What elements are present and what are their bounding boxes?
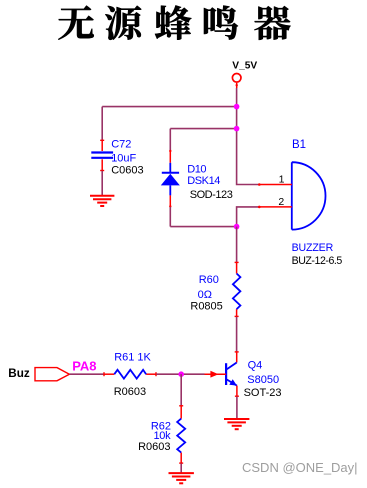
wire diode bottom	[170, 226, 236, 228]
transistor Q4 collector stub	[236, 352, 238, 363]
svg-text:2: 2	[278, 196, 284, 208]
port Buz	[35, 368, 69, 381]
resistor R60 wires	[236, 227, 238, 263]
wire R61 to base	[156, 373, 204, 375]
resistor R61 stubs	[104, 373, 115, 375]
svg-text:D10: D10	[187, 163, 206, 175]
svg-text:R60: R60	[199, 274, 219, 286]
svg-text:SOT-23: SOT-23	[244, 387, 282, 399]
svg-text:Q4: Q4	[248, 359, 263, 371]
power stem dot	[236, 84, 238, 86]
power stem	[236, 83, 238, 88]
node junction R61/R62/base	[178, 371, 184, 377]
buzzer pin 2	[259, 206, 292, 208]
capacitor C72 wires	[101, 107, 103, 140]
diode D10 wires	[169, 129, 171, 151]
transistor Q4 base arrow	[210, 371, 218, 378]
svg-text:V_5V: V_5V	[232, 61, 257, 72]
svg-text:R0805: R0805	[190, 301, 222, 313]
svg-text:S8050: S8050	[247, 374, 279, 386]
wire emitter to ground	[236, 397, 238, 420]
svg-text:R61 1K: R61 1K	[114, 352, 151, 364]
wire port to R61	[69, 373, 103, 375]
transistor Q4 collector diagonal	[227, 363, 237, 370]
svg-text:0Ω: 0Ω	[198, 289, 212, 301]
buzzer pin 1	[259, 184, 292, 186]
svg-text:PA8: PA8	[72, 359, 96, 374]
wire main vertical V_5V to pin1	[237, 88, 260, 185]
transistor Q4 emitter arrow	[229, 379, 237, 385]
node junction V5V/C72	[234, 104, 240, 110]
svg-text:10uF: 10uF	[111, 152, 136, 164]
capacitor C72 plates	[91, 151, 113, 153]
svg-text:1: 1	[279, 173, 285, 185]
power port circle	[232, 74, 241, 83]
node junction pin2/D10/R60	[234, 224, 240, 230]
svg-text:R0603: R0603	[114, 386, 146, 398]
svg-text:C0603: C0603	[111, 165, 143, 177]
diode D10 triangle	[161, 174, 180, 186]
wire top rail to C72	[102, 106, 236, 108]
svg-text:DSK14: DSK14	[187, 175, 220, 187]
ground Q4	[224, 419, 249, 429]
wire pin2 to junction	[237, 207, 260, 227]
ground C72	[90, 196, 114, 206]
wire diode top	[170, 128, 236, 130]
svg-text:BUZ-12-6.5: BUZ-12-6.5	[292, 255, 343, 267]
ground R62	[169, 473, 194, 483]
svg-text:CSDN @ONE_Day|: CSDN @ONE_Day|	[242, 460, 358, 475]
svg-text:SOD-123: SOD-123	[190, 189, 233, 201]
resistor R62 zigzag	[177, 419, 185, 453]
buzzer B1 body	[292, 162, 326, 229]
svg-text:BUZZER: BUZZER	[292, 242, 334, 254]
transistor Q4 base bar	[225, 363, 227, 385]
diode D10 cathode bar	[162, 172, 179, 174]
svg-text:Buz: Buz	[8, 367, 30, 380]
svg-text:R0603: R0603	[138, 441, 170, 453]
resistor R61 zigzag	[114, 370, 146, 379]
resistor R62 wires	[180, 374, 182, 405]
node junction V5V/D10	[234, 126, 240, 132]
resistor R60 zigzag	[233, 274, 241, 310]
title 无源蜂鸣器	[58, 5, 290, 39]
svg-text:C72: C72	[111, 139, 131, 151]
transistor Q4 base pin	[205, 373, 227, 375]
transistor Q4 emitter diagonal	[227, 380, 237, 386]
svg-text:10k: 10k	[153, 430, 171, 442]
transistor Q4 emitter stub	[236, 386, 238, 397]
svg-text:B1: B1	[292, 139, 306, 151]
